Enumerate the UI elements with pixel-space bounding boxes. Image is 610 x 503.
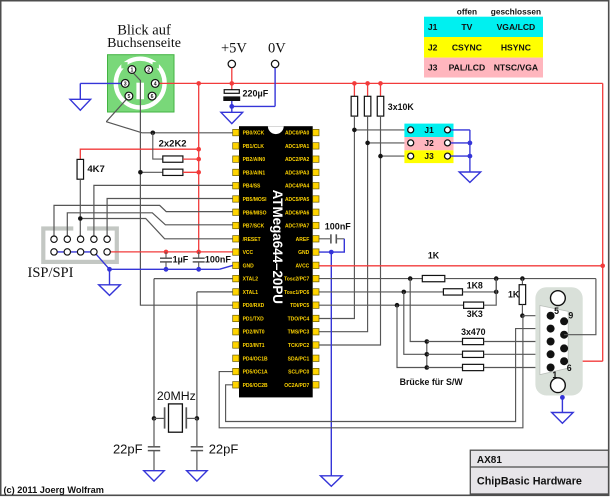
svg-text:6: 6 xyxy=(567,363,572,373)
svg-text:PB2/AIN0: PB2/AIN0 xyxy=(243,157,266,163)
svg-text:4K7: 4K7 xyxy=(87,164,104,175)
svg-text:PD0/RXD: PD0/RXD xyxy=(243,303,265,309)
svg-text:1K: 1K xyxy=(508,290,520,300)
svg-text:TDO/PC4: TDO/PC4 xyxy=(288,316,310,322)
svg-text:PD2/INT0: PD2/INT0 xyxy=(243,330,265,336)
svg-text:ADC3/PA3: ADC3/PA3 xyxy=(285,170,310,176)
svg-text:SCL/PC0: SCL/PC0 xyxy=(288,370,309,376)
svg-text:VCC: VCC xyxy=(243,250,254,256)
svg-text:OC2A/PD7: OC2A/PD7 xyxy=(284,383,309,389)
svg-text:ADC0/PA0: ADC0/PA0 xyxy=(285,131,310,137)
svg-text:ADC5/PA5: ADC5/PA5 xyxy=(285,197,310,203)
svg-text:Tosc2/PC7: Tosc2/PC7 xyxy=(284,277,309,283)
svg-text:TCK/PC2: TCK/PC2 xyxy=(288,343,310,349)
svg-text:HSYNC: HSYNC xyxy=(501,42,531,52)
svg-text:ADC6/PA6: ADC6/PA6 xyxy=(285,210,310,216)
svg-text:TMS/PC3: TMS/PC3 xyxy=(288,330,310,336)
svg-text:PD6/OC2B: PD6/OC2B xyxy=(243,383,268,389)
svg-text:GND: GND xyxy=(298,250,310,256)
svg-text:20MHz: 20MHz xyxy=(157,389,196,403)
svg-text:SDA/PC1: SDA/PC1 xyxy=(288,356,310,362)
svg-text:1: 1 xyxy=(130,67,133,73)
svg-text:AX81: AX81 xyxy=(477,455,502,466)
svg-text:TDI/PC5: TDI/PC5 xyxy=(290,303,309,309)
svg-text:PD1/TXD: PD1/TXD xyxy=(243,316,265,322)
svg-text:PB1/CLK: PB1/CLK xyxy=(243,144,265,150)
svg-text:J3: J3 xyxy=(428,63,438,73)
svg-text:geschlossen: geschlossen xyxy=(491,6,541,16)
svg-text:ADC7/PA7: ADC7/PA7 xyxy=(285,224,310,230)
svg-text:220µF: 220µF xyxy=(243,88,269,98)
svg-text:1: 1 xyxy=(552,370,557,380)
svg-text:22pF: 22pF xyxy=(113,442,143,457)
svg-text:VGA/LCD: VGA/LCD xyxy=(497,22,536,32)
svg-text:TV: TV xyxy=(461,22,472,32)
svg-text:PB0/XCK: PB0/XCK xyxy=(243,131,265,137)
svg-text:ISP/SPI: ISP/SPI xyxy=(28,265,74,281)
svg-text:PB4/SS: PB4/SS xyxy=(243,184,261,190)
svg-text:J3: J3 xyxy=(424,151,434,161)
svg-text:5: 5 xyxy=(127,94,130,100)
svg-text:J2: J2 xyxy=(424,138,434,148)
svg-text:+5V: +5V xyxy=(221,41,247,57)
svg-text:ChipBasic Hardware: ChipBasic Hardware xyxy=(477,476,582,488)
svg-text:1K: 1K xyxy=(428,251,440,261)
svg-text:PD4/OC1B: PD4/OC1B xyxy=(243,356,268,362)
svg-text:5: 5 xyxy=(554,306,559,316)
svg-text:22pF: 22pF xyxy=(209,442,239,457)
svg-text:AREF: AREF xyxy=(296,237,310,243)
svg-text:3K3: 3K3 xyxy=(467,309,483,319)
svg-text:AVCC: AVCC xyxy=(296,263,310,269)
svg-text:1K8: 1K8 xyxy=(467,280,483,290)
svg-text:ADC1/PA1: ADC1/PA1 xyxy=(285,144,310,150)
svg-text:CSYNC: CSYNC xyxy=(452,42,482,52)
svg-text:PD5/OC1A: PD5/OC1A xyxy=(243,370,268,376)
svg-text:J2: J2 xyxy=(428,42,438,52)
svg-text:PD3/INT1: PD3/INT1 xyxy=(243,343,265,349)
svg-text:2: 2 xyxy=(147,67,150,73)
svg-text:GND: GND xyxy=(243,263,255,269)
svg-text:PAL/LCD: PAL/LCD xyxy=(449,63,486,73)
svg-text:/RESET: /RESET xyxy=(243,237,261,243)
svg-text:J1: J1 xyxy=(424,125,434,135)
svg-text:XTAL2: XTAL2 xyxy=(243,277,259,283)
svg-text:PB7/SCK: PB7/SCK xyxy=(243,224,265,230)
svg-text:PB3/AIN1: PB3/AIN1 xyxy=(243,170,266,176)
svg-text:NTSC/VGA: NTSC/VGA xyxy=(494,63,538,73)
svg-text:PB5/MOSI: PB5/MOSI xyxy=(243,197,268,203)
svg-text:Brücke für S/W: Brücke für S/W xyxy=(400,377,464,387)
svg-text:0V: 0V xyxy=(268,41,286,57)
svg-text:(c) 2011 Joerg Wolfram: (c) 2011 Joerg Wolfram xyxy=(4,485,104,495)
svg-text:J1: J1 xyxy=(428,22,438,32)
svg-text:ADC2/PA2: ADC2/PA2 xyxy=(285,157,310,163)
svg-text:2x2K2: 2x2K2 xyxy=(159,138,187,149)
svg-text:3: 3 xyxy=(124,81,127,87)
svg-text:6: 6 xyxy=(151,94,154,100)
svg-text:Buchsenseite: Buchsenseite xyxy=(107,36,181,51)
svg-text:1µF: 1µF xyxy=(173,255,189,265)
svg-text:XTAL1: XTAL1 xyxy=(243,290,259,296)
svg-text:ATMega644–20PU: ATMega644–20PU xyxy=(270,190,285,304)
svg-text:9: 9 xyxy=(568,310,573,320)
svg-text:100nF: 100nF xyxy=(325,221,352,231)
svg-text:Tosc1/PC6: Tosc1/PC6 xyxy=(284,290,309,296)
svg-text:ADC4/PA4: ADC4/PA4 xyxy=(285,184,310,190)
svg-text:offen: offen xyxy=(457,6,477,16)
svg-text:100nF: 100nF xyxy=(205,255,232,265)
svg-text:3x470: 3x470 xyxy=(461,327,486,337)
svg-text:3x10K: 3x10K xyxy=(388,102,415,112)
svg-text:4: 4 xyxy=(154,81,157,87)
svg-text:PB6/MISO: PB6/MISO xyxy=(243,210,267,216)
